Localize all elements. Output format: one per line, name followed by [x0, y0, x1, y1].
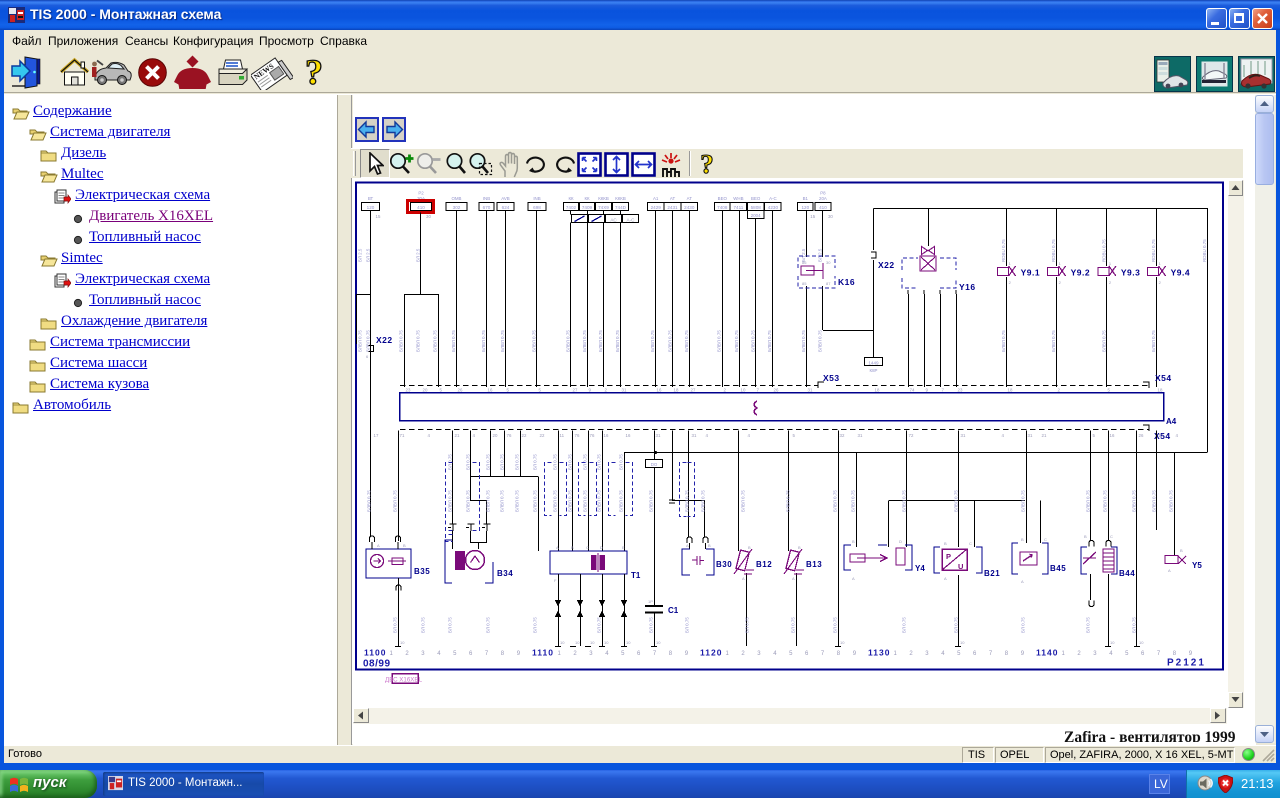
- svg-text:В: В: [1180, 548, 1183, 553]
- svg-text:87: 87: [826, 281, 831, 286]
- svg-text:БЛ 2.5: БЛ 2.5: [416, 248, 421, 262]
- svg-text:27: 27: [573, 388, 578, 393]
- svg-text:30: 30: [828, 214, 833, 219]
- svg-text:10: 10: [1110, 640, 1115, 645]
- svg-text:ВЕО: ВЕО: [718, 196, 728, 201]
- svg-text:8: 8: [1005, 651, 1009, 657]
- svg-text:D: D: [600, 545, 603, 550]
- svg-text:БЛВЛ 0.75: БЛВЛ 0.75: [818, 330, 823, 352]
- svg-text:8: 8: [669, 651, 673, 657]
- svg-text:А: А: [377, 543, 380, 548]
- svg-text:2004: 2004: [751, 213, 761, 218]
- svg-text:БЛВЛ 0.75: БЛВЛ 0.75: [717, 330, 722, 352]
- svg-text:C1: C1: [668, 606, 679, 615]
- svg-text:В: В: [852, 539, 855, 544]
- svg-text:10: 10: [575, 640, 580, 645]
- svg-text:БЛ 0.75: БЛ 0.75: [649, 617, 654, 633]
- svg-text:БЛВЛ 0.75: БЛВЛ 0.75: [685, 490, 690, 512]
- svg-text:В: В: [708, 543, 711, 548]
- svg-text:17: 17: [1159, 433, 1164, 438]
- svg-text:А1: А1: [653, 196, 659, 201]
- svg-text:AVB: AVB: [501, 196, 510, 201]
- svg-text:21: 21: [1042, 433, 1047, 438]
- svg-text:БЛВЛ 0.75: БЛВЛ 0.75: [568, 490, 573, 512]
- svg-text:16: 16: [488, 388, 493, 393]
- svg-text:RDBU 0.75: RDBU 0.75: [1101, 239, 1106, 262]
- svg-text:6: 6: [366, 354, 369, 359]
- svg-text:X54: X54: [1155, 373, 1172, 383]
- svg-text:БЛВЛ 0.75: БЛВЛ 0.75: [466, 490, 471, 512]
- svg-text:5: 5: [1125, 651, 1129, 657]
- svg-text:76: 76: [590, 433, 595, 438]
- svg-text:30: 30: [826, 260, 831, 265]
- svg-text:4: 4: [773, 651, 777, 657]
- svg-text:31: 31: [656, 433, 661, 438]
- svg-text:БЛ 0.75: БЛ 0.75: [486, 454, 491, 470]
- svg-text:7: 7: [485, 651, 489, 657]
- svg-text:1: 1: [390, 651, 394, 657]
- svg-text:1: 1: [558, 651, 562, 657]
- svg-text:А: А: [686, 543, 689, 548]
- svg-text:А-С: А-С: [627, 217, 636, 222]
- svg-text:В: В: [403, 543, 406, 548]
- svg-text:B13: B13: [806, 560, 822, 569]
- svg-text:7409: 7409: [582, 205, 593, 210]
- svg-text:698: 698: [533, 205, 541, 210]
- svg-text:БЛВЛ 0.75: БЛВЛ 0.75: [366, 330, 371, 352]
- svg-text:Y9.4: Y9.4: [1171, 268, 1191, 278]
- svg-text:БЛ 0.75: БЛ 0.75: [448, 617, 453, 633]
- svg-text:9: 9: [1189, 651, 1193, 657]
- svg-text:5: 5: [1093, 433, 1096, 438]
- svg-text:БЛ 0.75: БЛ 0.75: [745, 617, 750, 633]
- svg-text:WHB: WHB: [733, 196, 743, 201]
- svg-text:БЛ 0.75: БЛ 0.75: [902, 617, 907, 633]
- svg-text:B35: B35: [414, 567, 430, 576]
- svg-text:БЛ 0.75: БЛ 0.75: [597, 617, 602, 633]
- svg-text:4: 4: [1109, 651, 1113, 657]
- svg-text:БЛВЛ 0.75: БЛВЛ 0.75: [801, 330, 806, 352]
- svg-text:5808: 5808: [751, 205, 762, 210]
- svg-text:4: 4: [1176, 433, 1179, 438]
- svg-text:7: 7: [989, 651, 993, 657]
- svg-text:В1: В1: [803, 196, 809, 201]
- svg-text:410: 410: [819, 205, 827, 210]
- svg-text:БЛ 0.75: БЛ 0.75: [500, 454, 505, 470]
- svg-text:6: 6: [469, 651, 473, 657]
- svg-text:БЛВЛ 0.75: БЛВЛ 0.75: [650, 330, 655, 352]
- svg-text:1449: 1449: [868, 360, 879, 365]
- svg-text:БЛВЛ 0.75: БЛВЛ 0.75: [399, 330, 404, 352]
- svg-text:2: 2: [741, 651, 745, 657]
- svg-text:Y5: Y5: [1192, 561, 1202, 570]
- svg-text:5: 5: [793, 433, 796, 438]
- svg-text:БЛВЛ 0.75: БЛВЛ 0.75: [582, 330, 587, 352]
- svg-text:ВЕО: ВЕО: [751, 196, 761, 201]
- svg-text:X22: X22: [878, 260, 895, 270]
- svg-text:1110: 1110: [532, 648, 554, 658]
- svg-text:БЛВЛ 0.75: БЛВЛ 0.75: [1086, 490, 1091, 512]
- svg-text:БЛВЛ 0.75: БЛВЛ 0.75: [684, 330, 689, 352]
- svg-text:2: 2: [1109, 280, 1112, 285]
- svg-text:Е: Е: [622, 545, 625, 550]
- svg-text:БЛВЛ 0.75: БЛВЛ 0.75: [500, 330, 505, 352]
- svg-text:БЛ 0.75: БЛ 0.75: [1086, 617, 1091, 633]
- svg-text:1130: 1130: [868, 648, 890, 658]
- svg-text:В: В: [944, 541, 947, 546]
- svg-text:18: 18: [875, 388, 880, 393]
- svg-text:БЛВЛ 0.75: БЛВЛ 0.75: [786, 490, 791, 512]
- svg-text:В: В: [571, 545, 574, 550]
- svg-text:2: 2: [1077, 651, 1081, 657]
- svg-text:31: 31: [692, 433, 697, 438]
- svg-text:21: 21: [455, 433, 460, 438]
- svg-text:120: 120: [367, 205, 375, 210]
- svg-text:БЛВЛ 0.75: БЛВЛ 0.75: [734, 330, 739, 352]
- svg-text:БЛВЛ 0.75: БЛВЛ 0.75: [515, 490, 520, 512]
- svg-text:БЛВЛ 0.75: БЛВЛ 0.75: [583, 490, 588, 512]
- svg-text:БЛ 2.5: БЛ 2.5: [366, 248, 371, 262]
- svg-text:1120: 1120: [700, 648, 722, 658]
- svg-text:БЛ 0.75: БЛ 0.75: [954, 617, 959, 633]
- svg-text:БЛВЛ 0.75: БЛВЛ 0.75: [1101, 330, 1106, 352]
- svg-text:D: D: [899, 539, 902, 544]
- svg-text:БЛ 2.5: БЛ 2.5: [358, 248, 363, 262]
- svg-text:БЛВЛ 0.75: БЛВЛ 0.75: [598, 330, 603, 352]
- svg-text:БЛВЛ 0.75: БЛВЛ 0.75: [741, 490, 746, 512]
- svg-text:БЛ 0.75: БЛ 0.75: [533, 617, 538, 633]
- svg-text:10: 10: [656, 640, 661, 645]
- svg-text:P2121: P2121: [1167, 658, 1206, 669]
- svg-text:А: А: [944, 576, 947, 581]
- svg-text:Y9.2: Y9.2: [1071, 268, 1091, 278]
- svg-text:85: 85: [802, 281, 807, 286]
- svg-text:10: 10: [741, 388, 746, 393]
- svg-text:БЛВЛ 0.75: БЛВЛ 0.75: [433, 330, 438, 352]
- svg-text:10: 10: [1139, 640, 1144, 645]
- svg-text:5: 5: [957, 651, 961, 657]
- svg-text:31: 31: [808, 388, 813, 393]
- svg-text:БЛВЛ 0.75: БЛВЛ 0.75: [1151, 330, 1156, 352]
- svg-text:БЛВЛ 0.75: БЛВЛ 0.75: [750, 330, 755, 352]
- svg-text:10: 10: [840, 640, 845, 645]
- svg-text:74Х9: 74Х9: [598, 205, 609, 210]
- svg-text:31: 31: [961, 433, 966, 438]
- svg-text:RDBU 0.75: RDBU 0.75: [1001, 239, 1006, 262]
- svg-text:11: 11: [560, 433, 565, 438]
- svg-text:31: 31: [622, 388, 627, 393]
- svg-text:1: 1: [1062, 651, 1066, 657]
- svg-text:БЛВЛ 0.75: БЛВЛ 0.75: [851, 490, 856, 512]
- svg-text:3: 3: [1093, 651, 1097, 657]
- svg-text:БЛВЛ 0.75: БЛВЛ 0.75: [701, 490, 706, 512]
- svg-text:16: 16: [1110, 433, 1115, 438]
- svg-text:БЛВЛ 0.75: БЛВЛ 0.75: [833, 490, 838, 512]
- svg-text:ДВС X16XEL: ДВС X16XEL: [385, 677, 423, 684]
- svg-text:БЛВЛ 0.75: БЛВЛ 0.75: [358, 330, 363, 352]
- svg-text:А: А: [792, 576, 795, 581]
- svg-text:74: 74: [910, 388, 915, 393]
- svg-text:4: 4: [748, 433, 751, 438]
- svg-text:ВТ: ВТ: [368, 196, 374, 201]
- svg-text:670: 670: [483, 205, 491, 210]
- svg-text:А: А: [1021, 579, 1024, 584]
- svg-text:6: 6: [973, 651, 977, 657]
- svg-text:КККВ: КККВ: [598, 196, 609, 201]
- svg-text:БЛ 0.75: БЛ 0.75: [393, 617, 398, 633]
- svg-text:10: 10: [626, 640, 631, 645]
- svg-text:БЛВЛ 0.75: БЛВЛ 0.75: [451, 330, 456, 352]
- svg-text:7411: 7411: [733, 205, 743, 210]
- svg-text:Y9.3: Y9.3: [1121, 268, 1141, 278]
- svg-text:Y4: Y4: [915, 564, 925, 573]
- svg-text:15: 15: [810, 214, 815, 219]
- svg-text:10: 10: [400, 640, 405, 645]
- svg-text:АС: АС: [610, 217, 617, 222]
- svg-text:БЛВЛ 0.75: БЛВЛ 0.75: [1132, 490, 1137, 512]
- svg-text:С: С: [1044, 537, 1047, 542]
- svg-text:БЛ 0.75: БЛ 0.75: [833, 617, 838, 633]
- svg-text:15: 15: [376, 214, 381, 219]
- svg-text:22: 22: [540, 433, 545, 438]
- svg-text:БЛВЛ 0.75: БЛВЛ 0.75: [533, 490, 538, 512]
- svg-text:20: 20: [423, 388, 428, 393]
- svg-text:БЛВЛ 0.75: БЛВЛ 0.75: [954, 490, 959, 512]
- svg-text:9: 9: [853, 651, 857, 657]
- svg-text:302: 302: [453, 205, 461, 210]
- svg-text:2430: 2430: [684, 205, 695, 210]
- svg-text:БЛ 0.75: БЛ 0.75: [1132, 617, 1137, 633]
- svg-text:26: 26: [458, 388, 463, 393]
- svg-text:БЛВЛ 0.75: БЛВЛ 0.75: [448, 490, 453, 512]
- svg-text:16: 16: [657, 388, 662, 393]
- svg-text:4: 4: [428, 433, 431, 438]
- svg-text:1: 1: [1009, 261, 1012, 266]
- svg-text:КК: КК: [568, 196, 574, 201]
- svg-text:8: 8: [501, 651, 505, 657]
- svg-text:БЛ 0.75: БЛ 0.75: [568, 454, 573, 470]
- svg-text:B21: B21: [984, 569, 1000, 578]
- svg-text:АТ: АТ: [670, 196, 676, 201]
- svg-text:86: 86: [802, 260, 807, 265]
- svg-text:5: 5: [789, 651, 793, 657]
- svg-text:А-С: А-С: [769, 196, 777, 201]
- svg-text:БЛ 0.75: БЛ 0.75: [791, 617, 796, 633]
- svg-text:БЛ 0.75: БЛ 0.75: [448, 454, 453, 470]
- svg-text:1: 1: [726, 651, 730, 657]
- svg-text:76: 76: [575, 433, 580, 438]
- svg-text:?: ?: [305, 54, 323, 91]
- svg-text:18: 18: [674, 388, 679, 393]
- svg-text:X22: X22: [376, 335, 393, 345]
- svg-text:9: 9: [1021, 651, 1025, 657]
- svg-text:С: С: [969, 541, 972, 546]
- svg-text:БЛВЛ 0.75: БЛВЛ 0.75: [597, 490, 602, 512]
- svg-text:4: 4: [706, 433, 709, 438]
- svg-text:2: 2: [1159, 280, 1162, 285]
- svg-text:B34: B34: [497, 569, 513, 578]
- svg-text:18: 18: [1158, 388, 1163, 393]
- svg-text:7: 7: [653, 651, 657, 657]
- svg-text:2: 2: [1009, 280, 1012, 285]
- svg-text:23: 23: [406, 388, 411, 393]
- svg-text:RDBU 0.75: RDBU 0.75: [1051, 239, 1056, 262]
- svg-text:30: 30: [426, 214, 431, 219]
- svg-text:Р2: Р2: [418, 191, 424, 196]
- svg-text:410: 410: [417, 205, 425, 210]
- svg-text:БЛ 0.75: БЛ 0.75: [533, 454, 538, 470]
- svg-text:БЛ 0.75: БЛ 0.75: [685, 617, 690, 633]
- svg-text:26: 26: [774, 388, 779, 393]
- svg-text:В: В: [1084, 534, 1087, 539]
- svg-text:16: 16: [626, 433, 631, 438]
- svg-text:БЛ 0.75: БЛ 0.75: [486, 617, 491, 633]
- svg-text:U: U: [958, 562, 963, 571]
- svg-text:БЛВЛ 0.75: БЛВЛ 0.75: [416, 330, 421, 352]
- svg-text:2: 2: [909, 651, 913, 657]
- svg-text:RDBU 0.75: RDBU 0.75: [1202, 239, 1207, 262]
- svg-text:Y9.1: Y9.1: [1021, 268, 1041, 278]
- svg-text:9: 9: [685, 651, 689, 657]
- svg-text:INB: INB: [483, 196, 490, 201]
- svg-text:10: 10: [560, 640, 565, 645]
- svg-text:БЛВЛ 0.75: БЛВЛ 0.75: [1152, 490, 1157, 512]
- svg-text:X53: X53: [823, 373, 840, 383]
- svg-text:БЛВЛ 0.75: БЛВЛ 0.75: [1021, 490, 1026, 512]
- svg-text:K16: K16: [838, 277, 855, 287]
- svg-text:С: С: [586, 545, 589, 550]
- svg-text:С: С: [1110, 534, 1113, 539]
- svg-text:26: 26: [1139, 433, 1144, 438]
- svg-text:3: 3: [925, 651, 929, 657]
- svg-text:БЛВЛ 0.75: БЛВЛ 0.75: [500, 490, 505, 512]
- svg-text:АТ: АТ: [687, 196, 693, 201]
- svg-text:БЛВЛ 0.75: БЛВЛ 0.75: [1001, 330, 1006, 352]
- svg-text:3: 3: [757, 651, 761, 657]
- svg-text:7402: 7402: [566, 205, 577, 210]
- svg-text:Р8: Р8: [820, 191, 826, 196]
- svg-text:27: 27: [691, 388, 696, 393]
- svg-text:B12: B12: [756, 560, 772, 569]
- svg-text:9: 9: [517, 651, 521, 657]
- svg-text:БЛ 0.75: БЛ 0.75: [515, 454, 520, 470]
- svg-text:КККВ: КККВ: [615, 196, 626, 201]
- svg-text:?: ?: [700, 150, 714, 178]
- svg-text:БЛВЛ 0.75: БЛВЛ 0.75: [553, 490, 558, 512]
- svg-text:БЛВЛ 0.75: БЛВЛ 0.75: [619, 490, 624, 512]
- svg-text:1: 1: [1159, 261, 1162, 266]
- svg-text:B45: B45: [1050, 564, 1066, 573]
- svg-text:БЛ 0.75: БЛ 0.75: [553, 454, 558, 470]
- svg-text:72: 72: [909, 433, 914, 438]
- svg-text:744D: 744D: [615, 205, 627, 210]
- svg-text:А: А: [556, 545, 559, 550]
- svg-text:INB: INB: [533, 196, 540, 201]
- svg-text:А: А: [742, 576, 745, 581]
- svg-text:КК: КК: [584, 196, 590, 201]
- svg-text:20А: 20А: [819, 196, 827, 201]
- svg-text:БЛВЛ 0.75: БЛВЛ 0.75: [393, 490, 398, 512]
- svg-text:БЛВЛ 0.75: БЛВЛ 0.75: [1169, 490, 1174, 512]
- svg-text:В: В: [798, 545, 801, 550]
- svg-text:Y16: Y16: [959, 282, 976, 292]
- svg-text:120: 120: [801, 205, 809, 210]
- svg-text:3: 3: [421, 651, 425, 657]
- svg-text:В: В: [748, 545, 751, 550]
- svg-text:16: 16: [604, 433, 609, 438]
- svg-text:B30: B30: [716, 560, 732, 569]
- svg-text:31: 31: [858, 433, 863, 438]
- svg-text:23: 23: [958, 388, 963, 393]
- svg-text:ОМВ: ОМВ: [451, 196, 461, 201]
- svg-text:20: 20: [493, 433, 498, 438]
- svg-text:10: 10: [590, 640, 595, 645]
- svg-text:4: 4: [941, 651, 945, 657]
- svg-text:БЛВЛ 0.75: БЛВЛ 0.75: [1051, 330, 1056, 352]
- svg-text:624: 624: [502, 205, 510, 210]
- svg-text:БЛ 0.75: БЛ 0.75: [619, 454, 624, 470]
- svg-text:А: А: [1168, 568, 1171, 573]
- svg-text:БЛ 0.75: БЛ 0.75: [583, 454, 588, 470]
- svg-text:76: 76: [507, 433, 512, 438]
- svg-text:БЛВЛ 0.75: БЛВЛ 0.75: [367, 490, 372, 512]
- svg-text:4230: 4230: [768, 205, 779, 210]
- svg-text:БЛ 0.75: БЛ 0.75: [1021, 617, 1026, 633]
- svg-text:2: 2: [405, 651, 409, 657]
- svg-text:БЛВЛ 0.75: БЛВЛ 0.75: [486, 490, 491, 512]
- svg-text:2: 2: [573, 651, 577, 657]
- svg-text:32: 32: [840, 433, 845, 438]
- svg-text:B44: B44: [1119, 569, 1135, 578]
- svg-text:4: 4: [605, 651, 609, 657]
- svg-text:17: 17: [374, 433, 379, 438]
- svg-text:F: F: [554, 578, 557, 583]
- svg-text:БЛВЛ 0.75: БЛВЛ 0.75: [1103, 490, 1108, 512]
- svg-text:БЛВЛ 0.75: БЛВЛ 0.75: [566, 330, 571, 352]
- svg-text:2429: 2429: [651, 205, 662, 210]
- svg-text:К8Р: К8Р: [870, 368, 878, 373]
- svg-text:10: 10: [604, 640, 609, 645]
- svg-text:БЛ 0.75: БЛ 0.75: [466, 454, 471, 470]
- svg-text:7: 7: [1157, 651, 1161, 657]
- svg-text:БЛВЛ 0.75: БЛВЛ 0.75: [615, 330, 620, 352]
- svg-text:2431: 2431: [667, 205, 678, 210]
- svg-text:1Р: 1Р: [648, 599, 653, 604]
- svg-text:5: 5: [453, 651, 457, 657]
- svg-text:5: 5: [621, 651, 625, 657]
- svg-text:БЛВЛ 0.75: БЛВЛ 0.75: [667, 330, 672, 352]
- svg-text:А: А: [852, 576, 855, 581]
- svg-text:1140: 1140: [1036, 648, 1058, 658]
- svg-text:10: 10: [960, 640, 965, 645]
- svg-text:A4: A4: [1166, 417, 1177, 426]
- svg-text:7408: 7408: [717, 205, 728, 210]
- svg-text:4: 4: [1002, 433, 1005, 438]
- svg-text:2: 2: [1059, 280, 1062, 285]
- svg-text:1: 1: [1059, 261, 1062, 266]
- svg-text:1: 1: [1109, 261, 1112, 266]
- svg-text:DO: DO: [651, 462, 658, 467]
- svg-text:БЛВЛ 0.75: БЛВЛ 0.75: [532, 330, 537, 352]
- svg-text:T1: T1: [631, 571, 641, 580]
- svg-text:6: 6: [1141, 651, 1145, 657]
- svg-text:18: 18: [1008, 388, 1013, 393]
- svg-text:8: 8: [1173, 651, 1177, 657]
- svg-text:БЛВЛ 0.75: БЛВЛ 0.75: [767, 330, 772, 352]
- svg-text:БЛВЛ 0.75: БЛВЛ 0.75: [481, 330, 486, 352]
- svg-text:4: 4: [473, 433, 476, 438]
- svg-text:В: В: [1021, 537, 1024, 542]
